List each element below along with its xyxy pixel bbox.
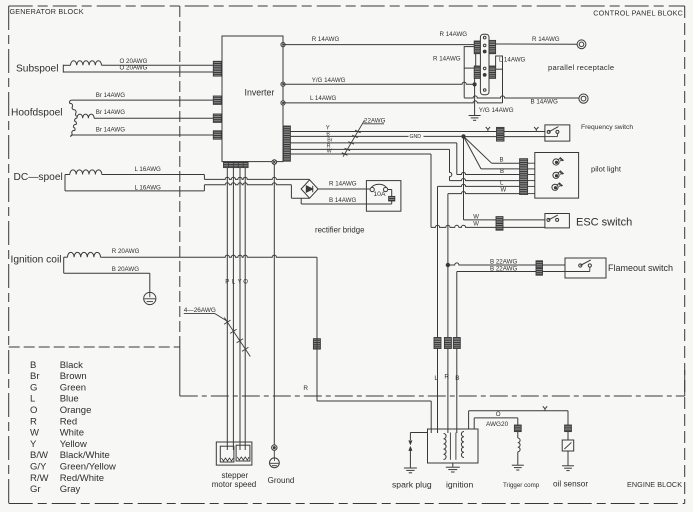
svg-text:R 14AWG: R 14AWG <box>532 36 560 43</box>
svg-text:Yellow: Yellow <box>60 439 87 450</box>
svg-text:Gr: Gr <box>30 484 41 495</box>
svg-text:stepper: stepper <box>221 471 248 480</box>
svg-text:B: B <box>30 360 36 371</box>
svg-text:pilot light: pilot light <box>591 165 622 174</box>
svg-text:L 14AWG: L 14AWG <box>310 95 337 102</box>
svg-text:R/W: R/W <box>30 473 49 484</box>
svg-text:B: B <box>455 375 459 382</box>
svg-text:B 20AWG: B 20AWG <box>112 266 139 273</box>
svg-text:DC—spoel: DC—spoel <box>14 172 63 183</box>
svg-text:L 16AWG: L 16AWG <box>135 166 162 173</box>
svg-text:Y/G 14AWG: Y/G 14AWG <box>479 107 514 114</box>
svg-text:R 14AWG: R 14AWG <box>440 31 468 38</box>
svg-text:Ignition coil: Ignition coil <box>11 255 62 266</box>
svg-text:4—26AWG: 4—26AWG <box>184 307 216 314</box>
svg-text:Green: Green <box>60 382 86 393</box>
svg-text:Black: Black <box>60 360 83 371</box>
svg-text:oil sensor: oil sensor <box>553 479 588 488</box>
svg-text:B 14AWG: B 14AWG <box>531 99 558 106</box>
svg-text:R: R <box>303 385 308 392</box>
svg-text:R 14AWG: R 14AWG <box>329 181 357 188</box>
svg-text:B: B <box>500 169 504 175</box>
svg-text:B 22AWG: B 22AWG <box>490 266 517 273</box>
svg-text:B/W: B/W <box>30 450 48 461</box>
svg-text:R 14AWG: R 14AWG <box>312 36 340 43</box>
svg-text:R: R <box>444 374 449 381</box>
svg-text:Br 14AWG: Br 14AWG <box>96 92 126 99</box>
svg-text:parallel receptacle: parallel receptacle <box>548 63 614 72</box>
svg-text:Inverter: Inverter <box>245 87 275 97</box>
svg-text:Hoofdspoel: Hoofdspoel <box>11 108 63 119</box>
svg-text:Gray: Gray <box>60 484 81 495</box>
svg-text:W: W <box>30 428 39 439</box>
svg-text:B: B <box>500 157 504 163</box>
svg-text:R 20AWG: R 20AWG <box>112 248 140 255</box>
svg-text:Subspoel: Subspoel <box>16 64 58 75</box>
svg-text:rectifier bridge: rectifier bridge <box>315 226 364 235</box>
svg-text:P: P <box>225 279 229 285</box>
svg-text:L 16AWG: L 16AWG <box>135 184 162 191</box>
svg-text:Y/G 14AWG: Y/G 14AWG <box>312 77 346 84</box>
svg-text:Black/White: Black/White <box>60 450 110 461</box>
svg-text:GND: GND <box>410 134 422 140</box>
svg-text:W: W <box>501 187 507 193</box>
svg-text:CONTROL PANEL BLOKC: CONTROL PANEL BLOKC <box>593 9 683 18</box>
svg-text:G: G <box>30 382 37 393</box>
svg-text:Red: Red <box>60 416 77 427</box>
svg-text:O: O <box>30 405 37 416</box>
svg-text:GENERATOR BLOCK: GENERATOR BLOCK <box>10 7 84 16</box>
svg-text:Green/Yellow: Green/Yellow <box>60 462 116 473</box>
svg-text:G/Y: G/Y <box>30 462 47 473</box>
svg-text:Y: Y <box>238 279 242 285</box>
svg-text:Brown: Brown <box>60 371 87 382</box>
svg-text:White: White <box>60 428 84 439</box>
svg-text:Red/White: Red/White <box>60 473 104 484</box>
svg-text:Br: Br <box>30 371 40 382</box>
svg-text:Br 14AWG: Br 14AWG <box>96 109 126 116</box>
svg-text:spark plug: spark plug <box>392 479 432 489</box>
svg-text:B 22AWG: B 22AWG <box>490 258 517 265</box>
svg-text:Trigger comp: Trigger comp <box>503 482 540 489</box>
svg-text:W: W <box>473 215 479 221</box>
svg-text:B 14AWG: B 14AWG <box>329 197 356 204</box>
svg-text:L: L <box>30 394 35 405</box>
svg-text:Orange: Orange <box>60 405 92 416</box>
svg-text:ESC switch: ESC switch <box>576 216 632 228</box>
svg-text:Ground: Ground <box>268 476 295 485</box>
svg-text:Blue: Blue <box>60 394 79 405</box>
svg-text:O: O <box>243 279 248 285</box>
svg-text:Frequency switch: Frequency switch <box>581 124 633 131</box>
svg-text:Br 14AWG: Br 14AWG <box>96 126 126 133</box>
svg-text:ignition: ignition <box>446 480 473 490</box>
svg-text:ENGINE BLOCK: ENGINE BLOCK <box>627 480 682 489</box>
svg-text:10A: 10A <box>373 191 386 198</box>
svg-text:Y: Y <box>30 439 37 450</box>
svg-text:Flameout switch: Flameout switch <box>608 263 673 273</box>
svg-text:AWG20: AWG20 <box>486 421 509 428</box>
svg-text:W: W <box>473 222 479 228</box>
svg-text:R 14AWG: R 14AWG <box>433 56 461 63</box>
svg-text:R: R <box>30 416 37 427</box>
svg-text:motor speed: motor speed <box>212 480 256 489</box>
svg-text:O: O <box>496 411 501 418</box>
svg-text:L: L <box>434 375 438 382</box>
svg-text:L 14AWG: L 14AWG <box>499 57 526 64</box>
svg-text:O 20AWG: O 20AWG <box>120 65 148 72</box>
